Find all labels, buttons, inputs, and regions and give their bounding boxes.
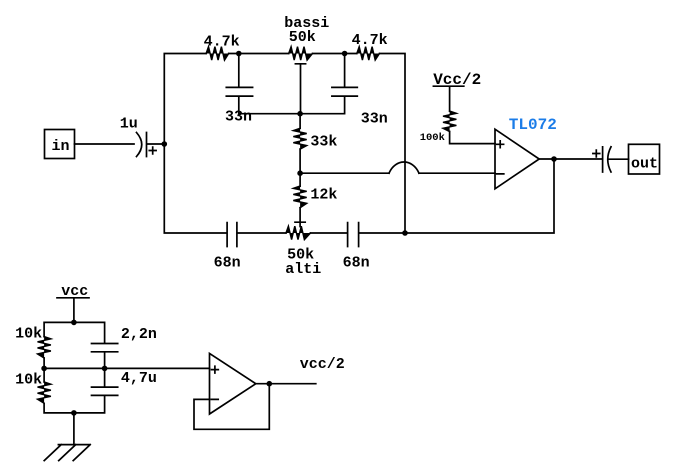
svg-text:33k: 33k [310, 134, 337, 151]
svg-text:50k: 50k [289, 29, 316, 46]
svg-text:TL072: TL072 [509, 116, 557, 134]
svg-text:33n: 33n [361, 110, 388, 127]
svg-text:in: in [52, 138, 70, 155]
svg-text:12k: 12k [310, 187, 337, 204]
svg-text:10k: 10k [15, 326, 42, 343]
svg-text:4,7u: 4,7u [121, 370, 157, 387]
svg-text:vcc/2: vcc/2 [300, 356, 345, 373]
svg-text:33n: 33n [225, 109, 252, 126]
svg-text:68n: 68n [343, 254, 370, 271]
svg-text:4.7k: 4.7k [352, 32, 388, 49]
svg-text:4.7k: 4.7k [204, 34, 240, 51]
svg-text:Vcc/2: Vcc/2 [433, 71, 481, 89]
svg-text:alti: alti [285, 261, 321, 278]
svg-text:2,2n: 2,2n [121, 326, 157, 343]
svg-text:10k: 10k [15, 372, 42, 389]
svg-text:1u: 1u [120, 116, 138, 133]
svg-text:100k: 100k [420, 132, 445, 144]
svg-text:vcc: vcc [61, 283, 88, 300]
svg-text:68n: 68n [214, 254, 241, 271]
svg-text:out: out [631, 156, 658, 173]
